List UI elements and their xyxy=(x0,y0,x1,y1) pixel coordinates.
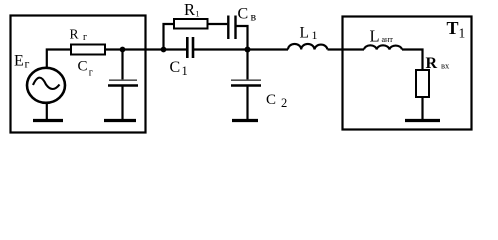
svg-text:в: в xyxy=(251,10,257,24)
svg-text:вх: вх xyxy=(441,61,450,71)
svg-text:T: T xyxy=(447,18,459,38)
svg-text:2: 2 xyxy=(281,96,287,110)
svg-text:1: 1 xyxy=(459,26,466,41)
svg-text:г: г xyxy=(89,68,93,79)
svg-text:C: C xyxy=(78,59,88,75)
svg-text:R: R xyxy=(184,0,195,19)
svg-text:1: 1 xyxy=(312,28,318,42)
svg-text:г: г xyxy=(25,57,30,71)
svg-text:1: 1 xyxy=(182,64,188,78)
svg-text:C: C xyxy=(238,6,249,23)
svg-text:ант: ант xyxy=(382,35,394,44)
svg-text:C: C xyxy=(266,92,276,108)
svg-text:R: R xyxy=(426,55,438,72)
svg-text:г: г xyxy=(83,32,87,43)
svg-text:E: E xyxy=(14,53,24,70)
svg-text:L: L xyxy=(300,25,309,42)
svg-text:R: R xyxy=(70,27,79,42)
svg-text:L: L xyxy=(370,27,380,46)
svg-text:C: C xyxy=(170,59,181,76)
svg-text:1: 1 xyxy=(196,10,200,19)
